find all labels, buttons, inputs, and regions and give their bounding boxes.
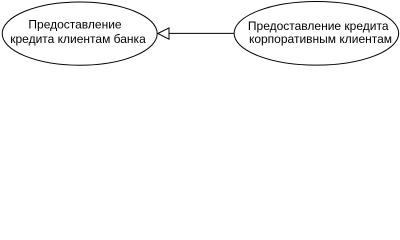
svg-text:Предоставление: Предоставление	[28, 18, 122, 32]
use case: Предоставление кредита корпоративным клиентам	[234, 2, 399, 66]
generalization arrow shaft	[169, 32, 235, 34]
use case: Предоставление кредита клиентам банка	[2, 2, 157, 65]
generalization arrowhead (hollow triangle)	[158, 28, 169, 39]
svg-text:корпоративным клиентам: корпоративным клиентам	[249, 32, 392, 46]
svg-text:кредита клиентам банка: кредита клиентам банка	[10, 32, 146, 46]
